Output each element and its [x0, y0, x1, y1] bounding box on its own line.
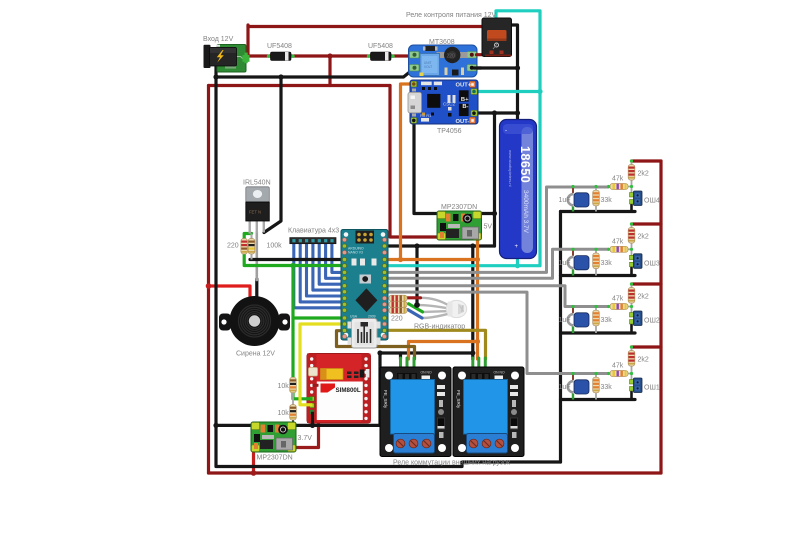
- svg-text:B-: B-: [462, 104, 468, 110]
- svg-text:47k: 47k: [612, 238, 624, 245]
- siren (Сирена 12V): [219, 296, 290, 346]
- svg-text:ОШ3: ОШ3: [644, 260, 660, 267]
- svg-text:10k: 10k: [278, 410, 290, 417]
- svg-text:SIM800L: SIM800L: [336, 387, 361, 394]
- svg-text:33k: 33k: [601, 384, 613, 391]
- svg-text:Реле коммутации внешних нагруз: Реле коммутации внешних нагрузок: [393, 460, 511, 467]
- svg-text:47k: 47k: [612, 296, 624, 303]
- svg-text:ON NO: ON NO: [421, 371, 432, 375]
- svg-text:TP4056: TP4056: [437, 128, 462, 135]
- svg-text:220: 220: [447, 54, 456, 60]
- wire orange MP2307DN U2 output down: [476, 240, 479, 342]
- wire orange nano VIN row: [385, 258, 478, 261]
- resistor 220 G (rgb): [389, 301, 407, 307]
- wire 220 bottom to nano 5V left: [244, 254, 344, 266]
- wire MP2307DN U2 top-right pin to GND vertical: [477, 212, 495, 215]
- wire TP4056 B- branch down to GND row: [493, 113, 496, 246]
- wire LED cathode drop: [415, 246, 418, 305]
- svg-text:10k: 10k: [278, 383, 290, 390]
- wire keypad col2: [300, 242, 344, 302]
- battery 18650: [500, 120, 537, 259]
- svg-text:FE_SRly: FE_SRly: [456, 390, 461, 409]
- wire green jumper 220 top: [244, 234, 251, 240]
- svg-text:CSC2: CSC2: [443, 102, 456, 107]
- buck module MP2307DN U2 (5V): [437, 211, 482, 240]
- wire orange TP4056 IN+: [401, 84, 412, 260]
- boost module MT3608: [409, 45, 485, 77]
- sensor circuit OSH1: [559, 345, 660, 399]
- sensor circuit OSH3: [559, 222, 660, 275]
- wire SIM800L GND pin drop: [311, 412, 314, 425]
- terminal OSH2: [630, 311, 643, 333]
- wire black y77 to MT3608 OUT-: [216, 69, 414, 78]
- svg-text:OUT+: OUT+: [456, 83, 472, 89]
- resistor 2k2 OSH3: [628, 222, 635, 256]
- svg-text:MP2307DN: MP2307DN: [441, 204, 477, 211]
- svg-text:VOLT: VOLT: [424, 65, 432, 69]
- wire SIM GND vertical x380: [378, 353, 381, 425]
- resistor 2k2 OSH4: [628, 159, 635, 193]
- wire TP4056 B- to battery vertical: [477, 111, 518, 114]
- wire horizontal y85.5: [209, 84, 391, 87]
- svg-text:2k2: 2k2: [638, 234, 649, 241]
- svg-text:3400mAh 3.7V: 3400mAh 3.7V: [522, 190, 529, 234]
- svg-text:2k2: 2k2: [638, 294, 649, 301]
- terminal OSH4: [630, 191, 643, 212]
- svg-text:UF5408: UF5408: [368, 43, 393, 50]
- resistor 2k2 OSH1: [628, 345, 635, 380]
- svg-text:1uF: 1uF: [559, 317, 571, 324]
- svg-text:B+: B+: [461, 97, 469, 103]
- diode D1 UF5408: [267, 52, 295, 61]
- wire MP2307DN U3 input drop: [252, 449, 255, 473]
- wire brown nano D12 U-route to relay module1 pin3: [337, 331, 415, 359]
- buck module MP2307DN U3 (3.7V): [251, 422, 296, 452]
- svg-text:220: 220: [227, 243, 239, 250]
- transistor Q1 IRL540N: [246, 187, 269, 234]
- resistor 47k OSH4: [607, 184, 632, 190]
- wire teal TP4056 OUT+ stub: [477, 90, 540, 93]
- wire relay module1 pin1 stub: [399, 353, 402, 359]
- resistor 220 B (rgb): [389, 307, 407, 313]
- wire keypad col1: [294, 242, 345, 308]
- svg-text:RGB-индикатор: RGB-индикатор: [414, 324, 465, 331]
- wire relay K1 right pin to battery minus: [511, 25, 518, 121]
- svg-text:OUT-: OUT-: [456, 119, 470, 125]
- svg-text:UF5408: UF5408: [267, 43, 292, 50]
- wire nano D11 yellow to SIM800L pin: [300, 324, 345, 405]
- wire gray nano A0 to OSH4: [385, 187, 609, 272]
- nano pins left and right: [342, 238, 386, 339]
- wire relay2 pin stubs: [473, 358, 486, 377]
- wire 10k junction green to SIM800L pin: [293, 394, 313, 399]
- wire mid junction drop x330: [328, 56, 331, 86]
- wire teal battery net: [385, 11, 541, 266]
- sensor circuit OSH4: [559, 159, 660, 211]
- resistor 33k OSH4: [593, 185, 600, 212]
- svg-text:MT3608: MT3608: [429, 39, 455, 46]
- wire mid red vertical to MP2307DN U2: [390, 86, 438, 238]
- wire gray nano A1 to OSH3: [385, 249, 609, 278]
- wire black left bus from jack minus: [214, 66, 217, 466]
- svg-text:33k: 33k: [601, 197, 613, 204]
- wire GND row y425.4: [216, 424, 380, 427]
- svg-text:33k: 33k: [601, 317, 613, 324]
- svg-text:1uF: 1uF: [559, 384, 571, 391]
- svg-text:Реле контроля питания 12V: Реле контроля питания 12V: [406, 12, 497, 19]
- nano mini-USB: [348, 319, 381, 349]
- wire MOSFET source leg gray: [255, 232, 258, 280]
- wire siren 12V feed (bright red): [209, 286, 251, 298]
- wire relay module2 pin1 stub: [471, 353, 474, 359]
- sensor circuit OSH2: [559, 282, 660, 333]
- wire teal battery plus stub: [516, 257, 519, 266]
- wire red jumper R to LED: [408, 296, 421, 299]
- wire GND row y353 relay headers: [380, 351, 473, 354]
- wire keypad col7: [332, 242, 345, 272]
- svg-text:2009: 2009: [368, 315, 376, 319]
- wire siren minus from MOSFET source: [255, 279, 258, 300]
- wire relay1 pin stubs: [401, 358, 415, 377]
- svg-text:18650: 18650: [518, 146, 532, 183]
- relay module 1: [380, 367, 451, 457]
- wire 3.7V to SIM800L (dark red): [296, 386, 319, 448]
- capacitor 1uF OSH3: [568, 248, 589, 276]
- diode D2 UF5408: [367, 52, 395, 61]
- resistor 2k2 OSH2: [628, 282, 635, 313]
- wire left red bus: [207, 86, 210, 474]
- svg-text:www.studiopieters.nl: www.studiopieters.nl: [508, 150, 513, 187]
- svg-text:+: +: [515, 244, 519, 250]
- wire 12V top bus (dark red): [248, 25, 483, 28]
- capacitor 1uF OSH2: [568, 305, 589, 333]
- svg-text:-: -: [505, 128, 507, 134]
- svg-text:Вход 12V: Вход 12V: [203, 36, 234, 43]
- wire black bottom bus: [216, 462, 561, 467]
- wire RGB LED legs: [421, 298, 450, 306]
- svg-text:1uF: 1uF: [559, 197, 571, 204]
- svg-text:47k: 47k: [612, 176, 624, 183]
- wire stub 2k2 R7 to bus: [632, 282, 662, 285]
- wire sensor rail OSH1: [561, 398, 636, 401]
- wire keypad col3: [307, 242, 345, 296]
- junction dots: [327, 53, 332, 58]
- svg-text:ОШ1: ОШ1: [644, 385, 660, 392]
- svg-text:100k: 100k: [267, 243, 283, 250]
- resistor 33k OSH3: [593, 248, 600, 276]
- resistor 100k (pulldown): [248, 234, 255, 260]
- resistor 47k OSH2: [607, 304, 632, 310]
- wire olive nano D7 to relay module2 pin3: [385, 330, 486, 359]
- svg-text:ОШ2: ОШ2: [644, 318, 660, 325]
- wire GND drop x472.8 to relay modules: [471, 246, 474, 353]
- resistor 47k OSH3: [607, 246, 632, 252]
- svg-text:Сирена 12V: Сирена 12V: [236, 351, 275, 358]
- svg-text:2k2: 2k2: [638, 171, 649, 178]
- wire gray nano A2 to OSH2: [385, 286, 609, 307]
- wire keypad col6: [326, 242, 345, 278]
- svg-text:3.7V: 3.7V: [298, 435, 313, 442]
- resistor 220 R (rgb): [389, 295, 407, 301]
- module SIM800L: [306, 354, 371, 425]
- capacitor 1uF OSH4: [568, 185, 589, 212]
- charger module TP4056: [408, 80, 478, 125]
- wire sensor GND vertical: [559, 212, 562, 463]
- svg-text:Клавиатура 4x3: Клавиатура 4x3: [288, 228, 339, 235]
- svg-text:IRL540N: IRL540N: [243, 180, 271, 187]
- svg-text:ON NO: ON NO: [494, 371, 505, 375]
- svg-text:NANO V3: NANO V3: [348, 251, 363, 255]
- svg-text:220: 220: [391, 316, 403, 323]
- resistor 10k (lower): [290, 405, 297, 426]
- wire jack plus drop: [246, 25, 249, 56]
- wire jack to MT3608 through diodes: [247, 54, 412, 57]
- wire sensor 12V bus vertical: [659, 161, 662, 473]
- wire TP4056 IN- down to MP2307DN U2 top-left pin: [414, 121, 441, 214]
- wire 100k to nano GND left: [250, 258, 345, 261]
- terminal OSH1: [630, 378, 643, 400]
- wire sensor rail OSH2: [561, 331, 636, 334]
- svg-text:47k: 47k: [612, 363, 624, 370]
- capacitor 1uF OSH1: [568, 372, 589, 400]
- wire stub 2k2 R10 to bus: [632, 222, 662, 225]
- wire keypad col4: [313, 242, 345, 290]
- RGB LED: [446, 300, 466, 317]
- wire MT3608 OUT- right to battery vertical: [469, 66, 518, 69]
- resistor 33k OSH2: [593, 305, 600, 333]
- svg-text:5V: 5V: [484, 224, 493, 231]
- svg-text:2k2: 2k2: [638, 357, 649, 364]
- wire sensor rail OSH3: [561, 274, 636, 277]
- svg-text:ОШ4: ОШ4: [644, 198, 660, 205]
- wire bottom red bus: [209, 471, 662, 474]
- wire green vertical to 10k R16 and nano D10: [293, 266, 345, 378]
- arduino nano U1: [341, 230, 388, 341]
- wire green jumper G to LED: [409, 304, 423, 312]
- terminal OSH3: [630, 254, 643, 276]
- svg-text:FET N: FET N: [249, 210, 261, 215]
- svg-text:MP2307DN: MP2307DN: [257, 455, 293, 462]
- relay K1 power control: [482, 18, 512, 57]
- keypad header 4x3: [290, 238, 336, 244]
- wire sensor rail OSH4: [561, 210, 636, 213]
- power jack J1 Вход 12V: [204, 45, 250, 73]
- svg-text:1uF: 1uF: [559, 260, 571, 267]
- resistor 47k OSH1: [607, 371, 632, 377]
- relay module 2: [453, 367, 524, 457]
- wire blue jumper B to LED: [408, 310, 422, 318]
- svg-text:FE_SRly: FE_SRly: [383, 390, 388, 409]
- resistor 10k (upper): [290, 377, 297, 405]
- resistor 33k OSH1: [593, 372, 600, 400]
- wire GND row nano to x494.5: [385, 244, 495, 247]
- resistor 220 (gate): [241, 239, 248, 255]
- wire orange relay VCC rail: [409, 342, 478, 360]
- wire stub 2k2 R4 to bus: [632, 345, 662, 348]
- wire black drop to MOSFET drain: [264, 77, 281, 233]
- svg-text:33k: 33k: [601, 260, 613, 267]
- svg-text:R0 R1: R0 R1: [420, 113, 432, 118]
- wire keypad col5: [319, 242, 344, 284]
- svg-text:USA: USA: [350, 315, 358, 319]
- wire gray nano A3 to OSH1: [385, 292, 609, 373]
- wire stub 2k2 R13 to bus: [632, 159, 662, 162]
